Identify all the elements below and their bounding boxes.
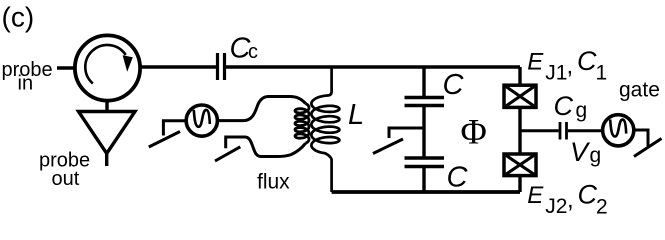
svg-text:C: C — [577, 46, 597, 76]
wire probe-in to circulator — [57, 66, 74, 69]
svg-text:C: C — [447, 162, 469, 194]
gate source circle — [603, 115, 634, 146]
svg-text:L: L — [348, 99, 364, 131]
josephson junction box1 — [504, 85, 536, 107]
ground tap wire at capacitor node — [389, 128, 424, 138]
capacitor Cg right plate — [565, 122, 568, 140]
circulator body — [75, 35, 140, 100]
flux source sine — [194, 110, 210, 127]
gate termination wire — [633, 130, 648, 146]
bottom segment to bottom wire — [422, 167, 425, 193]
svg-text:Φ: Φ — [461, 112, 487, 152]
capacitor Cc left plate — [216, 53, 219, 80]
svg-text:out: out — [52, 168, 80, 190]
svg-text:E: E — [527, 48, 544, 75]
svg-text:,: , — [567, 53, 574, 80]
svg-text:c: c — [248, 41, 258, 63]
gate wire from island — [520, 129, 559, 132]
gate source sine — [610, 120, 626, 137]
capacitor Cc right plate — [223, 53, 226, 80]
wire circulator to Cc — [140, 65, 216, 68]
wire Cg to gate source — [568, 129, 601, 132]
capacitor C top plate2 — [405, 104, 445, 107]
svg-text:J1: J1 — [545, 61, 567, 84]
svg-text:2: 2 — [596, 195, 608, 218]
transformer funnel bottom and exit wire — [226, 137, 306, 157]
svg-text:C: C — [554, 91, 574, 121]
capacitor C top plate1 — [405, 96, 445, 99]
flux wire and transformer funnel top — [217, 97, 305, 121]
flux bottom hatch — [215, 147, 240, 161]
wire JJ1 to JJ2 — [518, 107, 521, 154]
JJ1 cross — [504, 85, 536, 107]
circulator arrowhead — [123, 55, 133, 72]
svg-text:g: g — [590, 144, 602, 167]
capacitor C bottom plate2 — [405, 165, 445, 168]
amplifier output stub — [105, 154, 108, 167]
svg-text:g: g — [576, 99, 588, 122]
capacitor C bottom plate1 — [405, 156, 445, 159]
capacitor Cg left plate — [559, 122, 562, 140]
wire JJ2 to bottom wire — [518, 176, 521, 192]
ground tap hatch — [373, 139, 403, 154]
circulator arrow arc — [85, 45, 125, 84]
svg-text:in: in — [18, 73, 34, 95]
middle capacitor branch top segment — [422, 67, 425, 97]
bottom wire — [332, 190, 520, 194]
amplifier triangle — [79, 112, 136, 154]
svg-text:J2: J2 — [545, 195, 567, 218]
svg-text:E: E — [527, 182, 544, 209]
svg-text:1: 1 — [596, 62, 608, 85]
right branch top corner to JJ1 — [518, 67, 521, 85]
segment between capacitors — [422, 106, 425, 159]
svg-text:,: , — [567, 187, 574, 214]
JJ2 cross — [504, 154, 536, 176]
gate termination hatch — [634, 139, 662, 157]
flux source left wire — [163, 121, 185, 136]
flux source circle — [186, 105, 217, 136]
svg-text:V: V — [570, 137, 591, 167]
flux pickup coil — [295, 104, 309, 144]
left loop vertical with inductor L — [311, 67, 339, 192]
top wire Cc to junction corner — [226, 65, 520, 68]
svg-text:gate: gate — [619, 79, 660, 102]
wire circulator to amplifier — [105, 101, 108, 112]
josephson junction box2 — [504, 154, 536, 176]
svg-text:(c): (c) — [2, 2, 35, 33]
svg-text:C: C — [578, 180, 598, 210]
flux left hatch — [149, 132, 180, 148]
svg-text:flux: flux — [257, 171, 290, 194]
svg-text:C: C — [443, 69, 465, 101]
